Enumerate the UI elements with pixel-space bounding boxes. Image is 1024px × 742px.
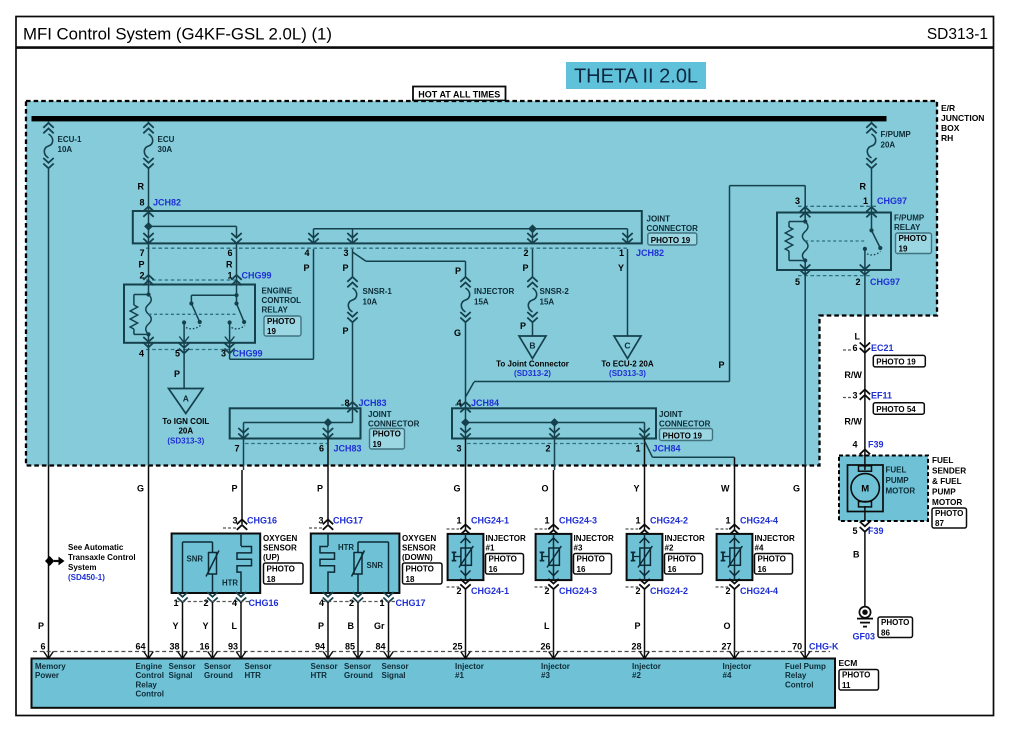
wire P from ECU-1 fuse to ECM terminal 6 [48, 169, 50, 466]
wire P SNSR-2 to triangle B [532, 323, 534, 336]
connector dashed line CHG99 bottom [146, 349, 231, 351]
oxygen UP bottom dashed line [176, 601, 250, 603]
triangle B [519, 336, 546, 359]
svg-text:SENDER: SENDER [932, 467, 966, 476]
svg-text:7: 7 [234, 444, 239, 454]
motor brush cap bottom [859, 502, 872, 507]
svg-text:JOINT: JOINT [368, 410, 392, 419]
JCH82 pin 4 exit chevrons [308, 233, 318, 243]
svg-text:JUNCTION: JUNCTION [941, 113, 984, 123]
F/PUMP parallel resistor [789, 221, 805, 223]
svg-text:Sensor: Sensor [169, 662, 196, 671]
svg-text:R: R [860, 182, 867, 192]
svg-text:JOINT: JOINT [647, 215, 671, 224]
joint connector JCH82 box [133, 211, 642, 243]
JCH82 pin 8 through wire [148, 211, 150, 243]
svg-text:#3: #3 [574, 544, 583, 553]
svg-text:10A: 10A [363, 298, 378, 307]
ECM box [32, 659, 836, 708]
svg-text:P: P [634, 621, 640, 631]
wire R from F/PUMP fuse to relay pin 1 [871, 169, 873, 213]
F/PUMP coil bottom dot [803, 258, 807, 262]
svg-text:G: G [137, 484, 144, 494]
svg-text:JCH82: JCH82 [153, 198, 181, 208]
svg-text:Transaxle Control: Transaxle Control [68, 553, 136, 562]
JCH83 pin 8 entry chevrons [347, 402, 357, 412]
svg-text:MOTOR: MOTOR [886, 487, 916, 496]
wire Y JCH82 pin1 to triangle C [627, 249, 629, 336]
svg-text:93: 93 [228, 642, 238, 652]
connector dashed line F/PUMP relay bottom [798, 275, 871, 277]
ECR pin3 edge arrowhead [225, 337, 235, 343]
svg-text:W: W [721, 484, 730, 494]
svg-text:RELAY: RELAY [262, 306, 289, 315]
motor brush cap top [859, 466, 872, 471]
svg-text:P: P [38, 621, 44, 631]
svg-text:CHG17: CHG17 [396, 598, 426, 608]
oxygen UP thermistor SNR [209, 553, 217, 575]
ECR switch 2 blade tip dot [242, 320, 246, 324]
svg-text:R/W: R/W [844, 370, 862, 380]
svg-text:INJECTOR: INJECTOR [474, 287, 515, 296]
svg-text:Y: Y [618, 263, 624, 273]
motor wire bottom [864, 506, 866, 521]
svg-text:15A: 15A [540, 298, 555, 307]
JCH84 junction diamond left [461, 418, 470, 427]
svg-text:Injector: Injector [455, 662, 484, 671]
svg-text:THETA II 2.0L: THETA II 2.0L [574, 66, 698, 88]
JCH82 drop to pin 2 [532, 229, 534, 244]
svg-text:CHG24-3: CHG24-3 [559, 516, 597, 526]
oxygen DOWN heater element [320, 547, 335, 577]
svg-text:PHOTO: PHOTO [899, 234, 927, 243]
ECR switch 1 pivot stub [190, 295, 192, 303]
svg-text:2: 2 [203, 598, 208, 608]
svg-text:20A: 20A [178, 427, 193, 436]
svg-text:Ground: Ground [204, 671, 233, 680]
wire JCH82 pin2 to SNSR-2 fuse [532, 249, 534, 277]
svg-text:7: 7 [139, 248, 144, 258]
oxygen DOWN exit chevrons [323, 592, 333, 602]
motor wire top [864, 456, 866, 471]
ECR switch 1 pivot dot [189, 301, 193, 305]
svg-text:MOTOR: MOTOR [932, 498, 962, 507]
svg-text:PHOTO 19: PHOTO 19 [651, 236, 691, 245]
svg-text:27: 27 [721, 642, 731, 652]
svg-text:16: 16 [489, 565, 498, 574]
svg-text:Relay: Relay [136, 680, 158, 689]
svg-text:5: 5 [175, 349, 180, 359]
svg-text:1: 1 [544, 516, 549, 526]
svg-text:4: 4 [139, 349, 144, 359]
svg-text:See Automatic: See Automatic [68, 543, 124, 552]
wire B to ground [864, 532, 866, 607]
svg-text:BOX: BOX [941, 123, 960, 133]
svg-text:PUMP: PUMP [886, 476, 910, 485]
JCH84 pin 3 exit chevrons [460, 428, 470, 438]
ECR coil inductor [146, 295, 152, 335]
oxygen UP output wires [182, 602, 184, 659]
triangle A to IGN COIL [169, 389, 204, 414]
svg-text:94: 94 [315, 642, 325, 652]
svg-text:(SD313-3): (SD313-3) [167, 437, 204, 446]
oxygen DOWN output wires [327, 602, 329, 659]
F/PUMP switch contact dot [863, 247, 867, 251]
svg-text:16: 16 [758, 565, 767, 574]
svg-text:(SD313-3): (SD313-3) [609, 369, 646, 378]
svg-text:Ground: Ground [344, 671, 373, 680]
connector 5 F39 [860, 522, 870, 532]
svg-text:P: P [174, 369, 180, 379]
svg-text:#2: #2 [632, 671, 641, 680]
svg-text:INJECTOR: INJECTOR [665, 534, 706, 543]
svg-text:PHOTO 54: PHOTO 54 [876, 405, 916, 414]
svg-text:CONNECTOR: CONNECTOR [659, 420, 711, 429]
oxygen DOWN heater wire [327, 534, 329, 547]
connector dashed line F/PUMP relay top [798, 205, 878, 207]
svg-text:70: 70 [792, 642, 802, 652]
svg-text:C: C [624, 341, 630, 351]
wire P JCH83 pin7 to oxygen UP pin 3 [243, 439, 245, 471]
wire G ECR pin4 to ECM terminal 64 [148, 343, 150, 466]
svg-text:SENSOR: SENSOR [263, 544, 297, 553]
motor circle M [851, 474, 879, 502]
svg-text:2: 2 [349, 598, 354, 608]
svg-text:CHG97: CHG97 [870, 277, 900, 287]
ECR switch 2 contact wire [229, 323, 231, 343]
svg-text:HOT AT ALL TIMES: HOT AT ALL TIMES [418, 89, 500, 99]
F/PUMP switch contact wire [864, 249, 866, 270]
svg-text:G: G [454, 328, 461, 338]
svg-text:16: 16 [577, 565, 586, 574]
svg-text:PHOTO: PHOTO [758, 555, 786, 564]
F/PUMP pin 3 entry chevrons [800, 207, 810, 217]
wire G F/PUMP pin5 to ECM terminal 70 [804, 270, 806, 466]
wire R from ECU fuse to JCH82 pin 8 [148, 169, 150, 211]
F/PUMP switch wire [871, 213, 873, 231]
ECR coil top junction dot [146, 292, 150, 296]
connector dash at JCH83 pin 8 [341, 404, 349, 406]
fuse ECU-1 10A [43, 123, 53, 133]
svg-text:P: P [342, 263, 348, 273]
svg-text:P: P [138, 260, 144, 270]
svg-text:18: 18 [406, 575, 415, 584]
JCH84 pin 4 entry chevrons [460, 402, 470, 412]
wire net ECR pin3 to JCH82 pin4 [229, 343, 231, 359]
svg-text:RELAY: RELAY [894, 223, 921, 232]
svg-text:4: 4 [852, 440, 857, 450]
svg-text:64: 64 [135, 642, 145, 652]
svg-text:P: P [718, 360, 724, 370]
svg-text:P: P [522, 263, 528, 273]
svg-text:To ECU-2 20A: To ECU-2 20A [601, 360, 654, 369]
svg-text:85: 85 [345, 642, 355, 652]
svg-text:#3: #3 [541, 671, 550, 680]
svg-text:System: System [68, 563, 96, 572]
wire G INJECTOR fuse to JCH84 pin 4 [465, 323, 467, 408]
svg-text:25: 25 [452, 642, 462, 652]
transaxle branch diamond arrow [45, 556, 54, 566]
JCH84 junction diamond right [550, 418, 559, 427]
svg-text:SENSOR: SENSOR [402, 544, 436, 553]
oxygen sensor UP box [172, 534, 261, 594]
svg-text:2: 2 [523, 248, 528, 258]
ECR switch 2 blade [237, 304, 245, 323]
JCH84 pin 2 exit chevrons [549, 428, 559, 438]
F/PUMP relay box [777, 213, 891, 271]
JCH84 PHOTO 19 box [660, 429, 713, 441]
svg-text:PHOTO: PHOTO [267, 317, 295, 326]
svg-text:Power: Power [35, 671, 59, 680]
svg-text:CHG17: CHG17 [333, 516, 363, 526]
svg-text:#4: #4 [723, 671, 732, 680]
svg-text:CONTROL: CONTROL [262, 296, 302, 305]
svg-text:P: P [317, 484, 323, 494]
svg-text:SNSR-1: SNSR-1 [363, 287, 393, 296]
svg-text:P: P [520, 321, 526, 331]
F/PUMP pin 2 exit chevrons [860, 265, 870, 275]
oxygen UP SNR link [182, 542, 184, 593]
svg-text:CHG24-1: CHG24-1 [471, 586, 509, 596]
ECR pin5 edge arrowhead [179, 337, 189, 343]
F/PUMP pin 5 exit chevrons [800, 265, 810, 275]
JCH82 pin 1 exit chevrons [622, 233, 632, 243]
svg-text:1: 1 [456, 516, 461, 526]
svg-text:CHG99: CHG99 [233, 349, 263, 359]
svg-text:4: 4 [319, 598, 324, 608]
svg-text:3: 3 [795, 196, 800, 206]
svg-text:RH: RH [941, 133, 953, 143]
fuse SNSR-2 15A [527, 277, 537, 287]
HOT AT ALL TIMES box [413, 87, 506, 101]
wire G JCH84 pin3 to injector 1 [465, 439, 467, 531]
svg-text:PHOTO: PHOTO [842, 671, 870, 680]
svg-text:EF11: EF11 [871, 391, 892, 401]
fuse INJECTOR 15A [460, 277, 470, 287]
F/PUMP switch blade tip dot [878, 246, 882, 250]
svg-text:P: P [342, 326, 348, 336]
JCH82 drop to pin 6 [236, 226, 238, 238]
title separator line [16, 46, 994, 49]
connector dash EC21 [843, 349, 852, 351]
svg-text:3: 3 [221, 349, 226, 359]
ECR switch 2 contact dot [228, 320, 232, 324]
battery bus bar (hot at all times) [32, 116, 887, 121]
oxygen UP heater element [237, 547, 252, 577]
ECR coil bottom junction dot [146, 332, 150, 336]
svg-text:L: L [232, 621, 238, 631]
svg-text:JCH84: JCH84 [471, 398, 499, 408]
svg-text:P: P [231, 484, 237, 494]
ECM terminal arrowheads and numbers [44, 652, 54, 659]
wire O JCH84 pin2 to injector 3 [554, 439, 556, 471]
ECR coil wire to pin 4 [148, 334, 150, 343]
svg-text:1: 1 [635, 516, 640, 526]
svg-text:18: 18 [267, 575, 276, 584]
svg-text:#2: #2 [665, 544, 674, 553]
connector dashed line CHG99 top [146, 279, 237, 281]
svg-text:M: M [861, 483, 869, 494]
svg-text:Sensor: Sensor [382, 662, 409, 671]
svg-text:1: 1 [379, 598, 384, 608]
svg-text:Control: Control [785, 680, 813, 689]
JCH82 PHOTO 19 box [648, 233, 697, 245]
F/PUMP switch blade [872, 230, 881, 248]
PHOTO 86 box [878, 617, 913, 638]
svg-text:19: 19 [373, 440, 382, 449]
JCH82 internal bus left segment [149, 225, 237, 227]
svg-text:INJECTOR: INJECTOR [755, 534, 796, 543]
JCH82 pin 7 exit chevrons [143, 233, 153, 243]
tick from HOT box to bus bar [458, 102, 460, 117]
svg-text:F39: F39 [868, 526, 884, 536]
svg-text:CHG24-2: CHG24-2 [650, 516, 688, 526]
svg-text:B: B [853, 550, 860, 560]
svg-text:4: 4 [232, 598, 237, 608]
svg-text:PHOTO 19: PHOTO 19 [876, 358, 916, 367]
ECR pin 3 exit chevrons [224, 343, 234, 353]
svg-text:F/PUMP: F/PUMP [894, 214, 925, 223]
svg-text:Engine: Engine [136, 662, 163, 671]
svg-text:10A: 10A [58, 145, 73, 154]
F/PUMP coil wire [804, 213, 806, 222]
svg-text:1: 1 [173, 598, 178, 608]
ECR link dot right [234, 293, 238, 297]
svg-text:84: 84 [375, 642, 385, 652]
joint connector JCH84 box [452, 408, 656, 438]
svg-text:CHG24-4: CHG24-4 [740, 586, 778, 596]
svg-text:Sensor: Sensor [204, 662, 231, 671]
svg-text:R/W: R/W [844, 416, 862, 426]
svg-text:Injector: Injector [632, 662, 661, 671]
svg-text:Injector: Injector [541, 662, 570, 671]
svg-text:Control: Control [136, 671, 164, 680]
svg-text:1: 1 [863, 196, 868, 206]
branch diagonal JCH82 pin3 to injector fuse [353, 252, 367, 261]
branch JCH84 pin1 to injector 4 [645, 441, 653, 457]
svg-text:JCH82: JCH82 [636, 248, 664, 258]
svg-text:E/R: E/R [941, 103, 955, 113]
JCH82 pin 2 exit chevrons [527, 233, 537, 243]
svg-text:F/PUMP: F/PUMP [881, 130, 912, 139]
ECR parallel resistor [134, 294, 149, 296]
triangle C [614, 336, 641, 359]
svg-text:19: 19 [899, 244, 908, 253]
svg-text:P: P [318, 621, 324, 631]
oxygen DOWN thermistor wire [357, 574, 359, 593]
svg-text:(SD313-2): (SD313-2) [514, 369, 551, 378]
svg-text:1: 1 [725, 516, 730, 526]
svg-text:ECM: ECM [839, 658, 858, 668]
svg-text:3: 3 [852, 391, 857, 401]
ECR coil wire from pin 2 [148, 285, 150, 295]
svg-text:87: 87 [935, 519, 944, 528]
F/PUMP pin 1 entry chevrons [866, 207, 876, 217]
PHOTO 87 box [932, 508, 967, 528]
ECM PHOTO 11 box [839, 670, 879, 691]
oxygen DOWN PHOTO 18 box [403, 563, 443, 584]
svg-text:CHG24-3: CHG24-3 [559, 586, 597, 596]
svg-text:(DOWN): (DOWN) [402, 553, 433, 562]
svg-text:INJECTOR: INJECTOR [574, 534, 615, 543]
wire P ECR pin5 to triangle A [183, 343, 185, 389]
ECR switch 1 contact dot [182, 320, 186, 324]
svg-text:Sensor: Sensor [245, 662, 272, 671]
svg-text:G: G [453, 484, 460, 494]
svg-text:2: 2 [855, 277, 860, 287]
oxygen UP PHOTO 18 box [264, 563, 304, 584]
wire L F/PUMP pin2 down to fuel sender [864, 270, 866, 316]
svg-text:FUEL: FUEL [932, 456, 953, 465]
svg-text:P: P [455, 266, 461, 276]
svg-text:PHOTO: PHOTO [935, 509, 963, 518]
svg-text:JCH84: JCH84 [653, 444, 681, 454]
svg-text:CHG-K: CHG-K [809, 642, 839, 652]
ECR switch 1 contact wire [183, 323, 185, 343]
svg-text:#1: #1 [455, 671, 464, 680]
svg-text:CONNECTOR: CONNECTOR [368, 420, 420, 429]
oxygen DOWN SNR link [388, 542, 390, 593]
EC21 PHOTO 19 box [873, 355, 925, 367]
svg-text:HTR: HTR [245, 671, 262, 680]
ECR linkage dashed line [149, 313, 238, 315]
svg-text:38: 38 [169, 642, 179, 652]
connector dashed line below JCH82 [146, 247, 628, 249]
F/PUMP switch arc [867, 252, 881, 255]
svg-text:OXYGEN: OXYGEN [402, 534, 436, 543]
svg-text:CHG24-2: CHG24-2 [650, 586, 688, 596]
svg-text:6: 6 [852, 343, 857, 353]
svg-text:SNSR-2: SNSR-2 [540, 287, 570, 296]
JCH82 drop to pin 3 [352, 229, 354, 244]
svg-text:8: 8 [139, 198, 144, 208]
oxygen UP heater wire [240, 534, 242, 547]
svg-text:SNR: SNR [367, 561, 384, 570]
svg-text:HTR: HTR [338, 543, 354, 552]
ECR switch 1 blade tip dot [198, 320, 202, 324]
ECR pin2 entry chevrons [143, 275, 153, 285]
svg-text:To Joint Connector: To Joint Connector [496, 360, 569, 369]
svg-text:3: 3 [456, 444, 461, 454]
JCH82 pin 3 exit chevrons [347, 233, 357, 243]
JCH82 pin 8 entry chevrons [143, 207, 153, 217]
svg-text:SD313-1: SD313-1 [927, 26, 988, 43]
F/PUMP coil wire to pin 5 [804, 261, 806, 271]
svg-text:Relay: Relay [785, 671, 807, 680]
svg-text:#4: #4 [755, 544, 764, 553]
svg-text:L: L [855, 332, 861, 342]
F/PUMP coil top dot [803, 219, 807, 223]
svg-text:Control: Control [136, 690, 164, 699]
wire P SNSR-1 to JCH83 pin 8 [352, 323, 354, 408]
fuel pump motor outer rect [848, 465, 884, 512]
JCH82 drop to pin 4 [313, 229, 315, 244]
svg-text:B: B [529, 341, 535, 351]
E/R junction box cyan region (dashed outline) [26, 101, 937, 466]
wire JCH82 pin3 to SNSR-1 fuse [352, 249, 354, 277]
fuel sender cyan box (dashed) [839, 456, 928, 522]
svg-text:R: R [138, 182, 145, 192]
connector dashed line JCH84 [467, 443, 643, 445]
JCH84 pin 1 exit chevrons [639, 428, 649, 438]
fuse ECU 30A [143, 123, 153, 133]
ECM terminal dashed line [33, 651, 830, 653]
engine control relay box [124, 285, 255, 343]
svg-text:F39: F39 [868, 440, 884, 450]
JCH83 pin 7 exit chevrons [238, 428, 248, 438]
svg-text:R: R [226, 260, 233, 270]
connector dash at JCH84 pin 4 [455, 404, 463, 406]
